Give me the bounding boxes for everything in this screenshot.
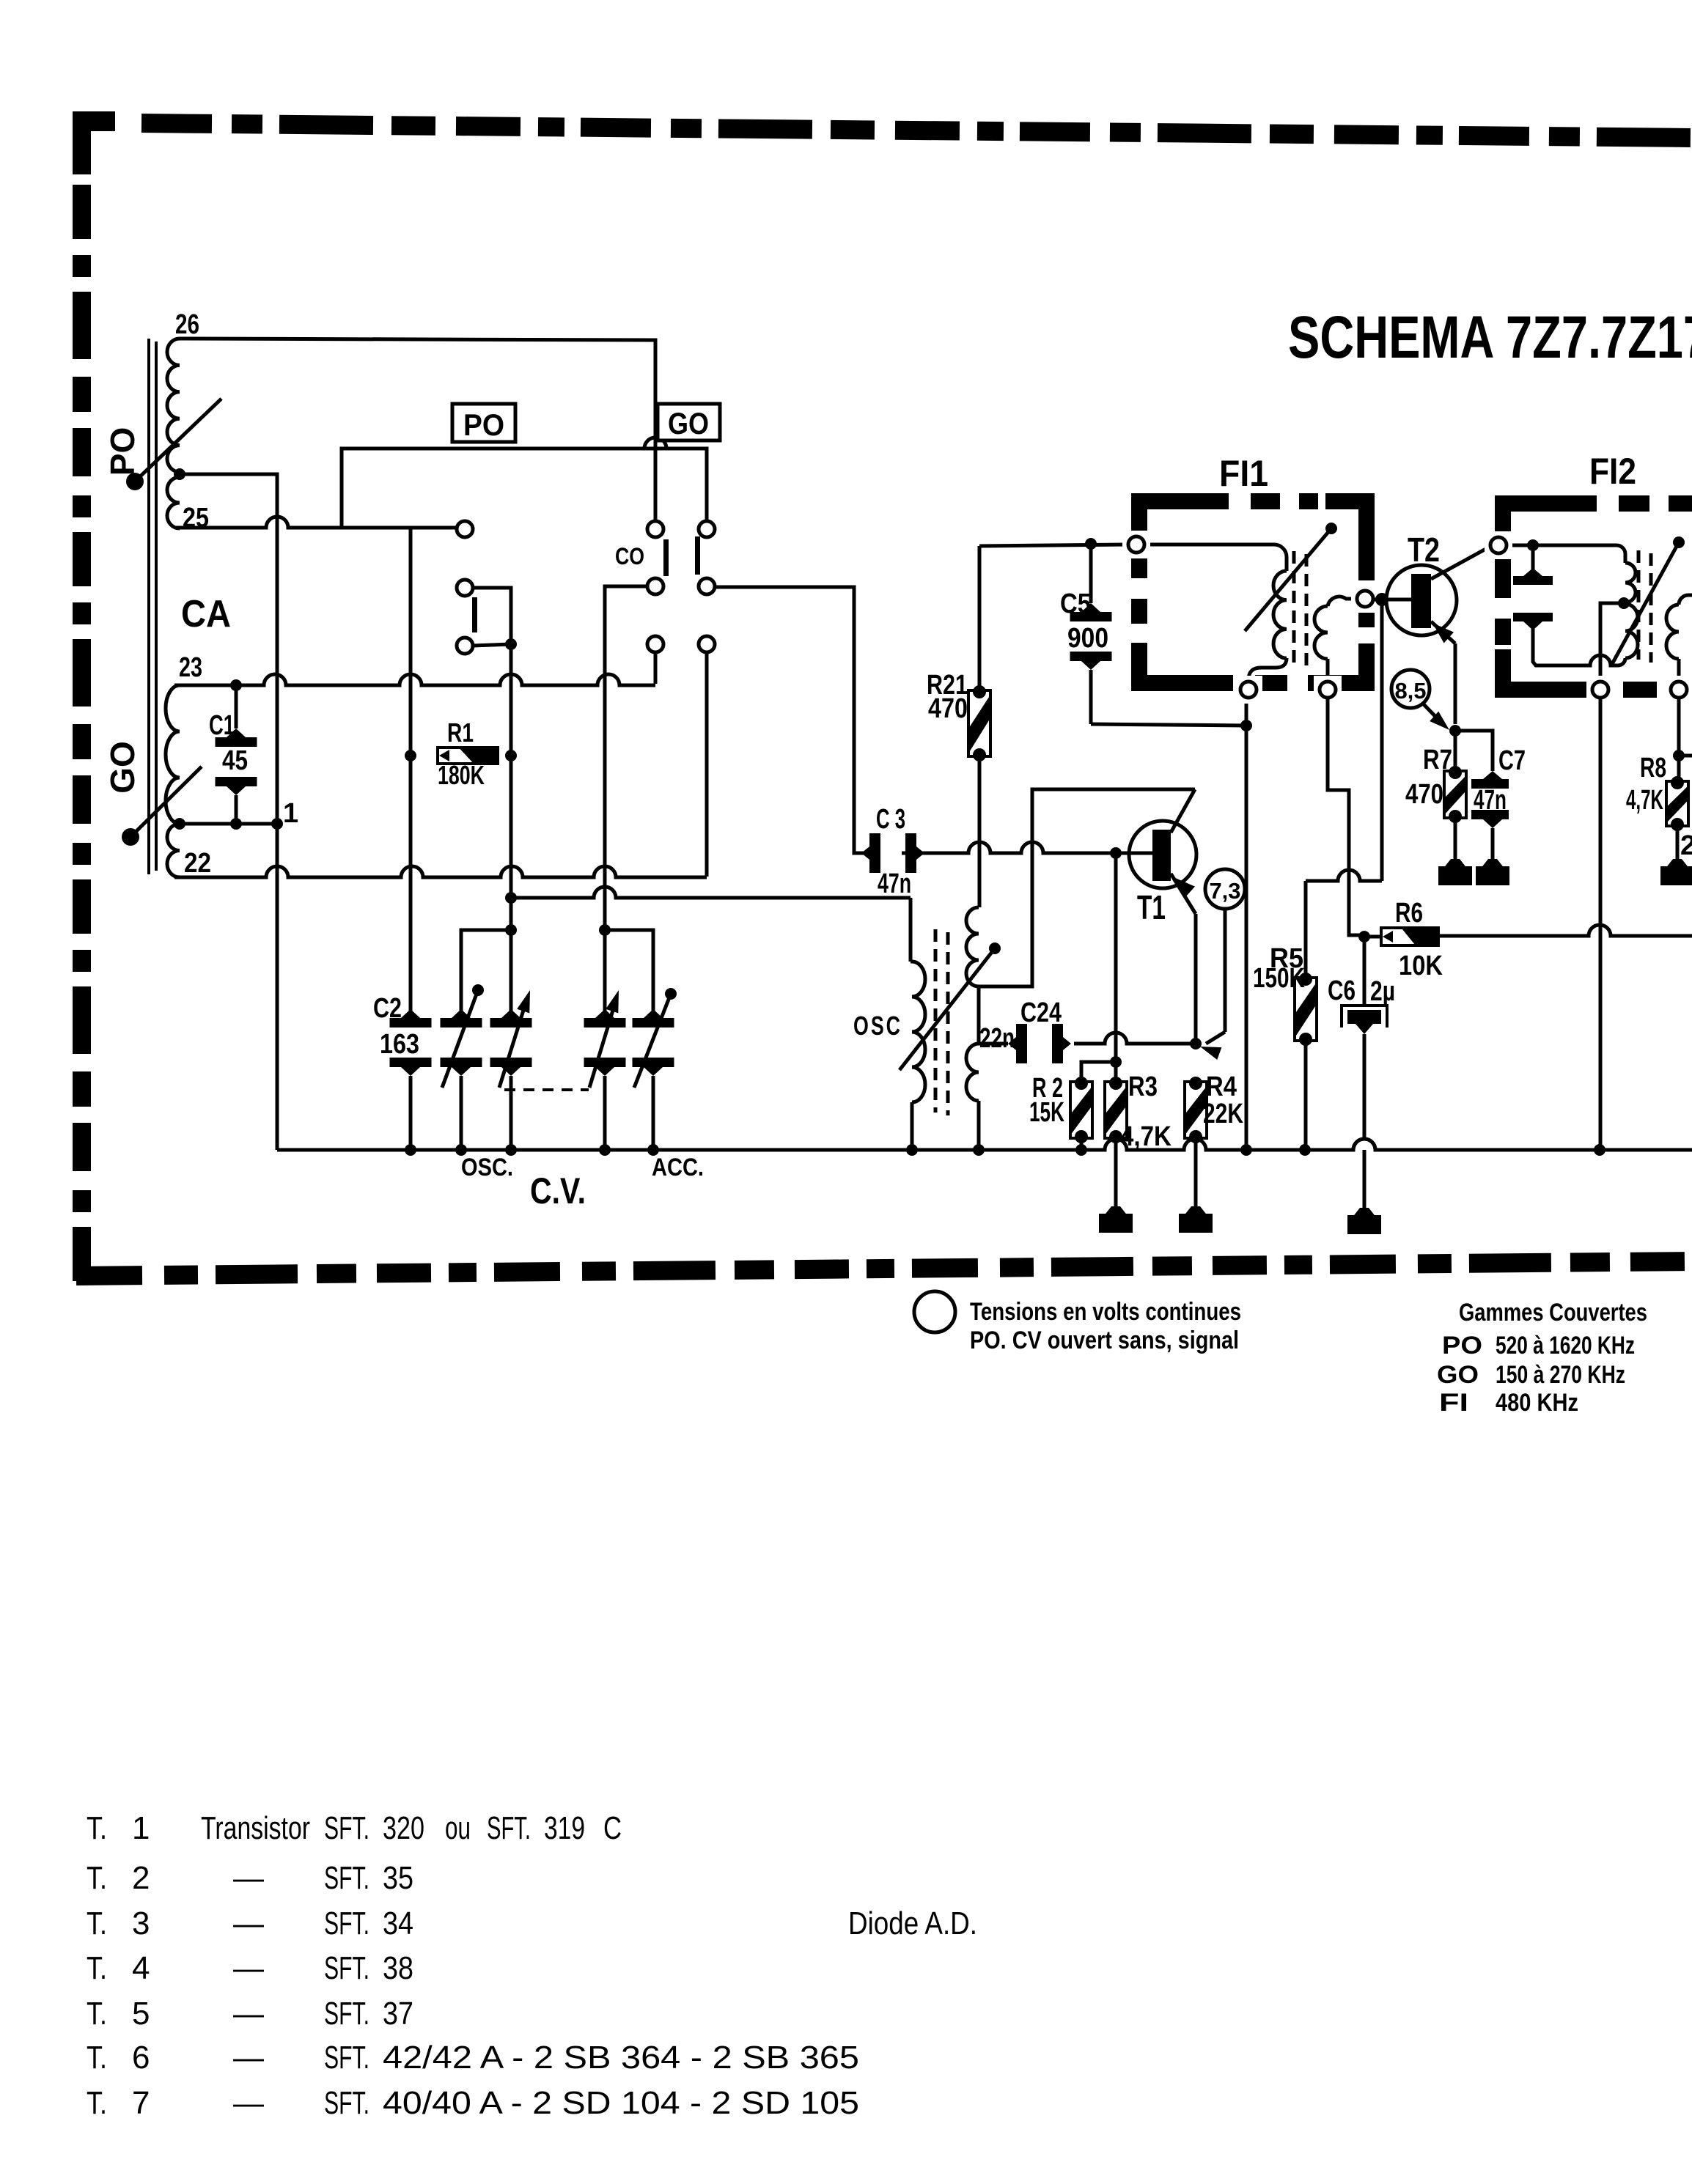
wire: emitter node to R7 and C7 — [1455, 731, 1493, 771]
svg-text:R4: R4 — [1206, 1071, 1237, 1102]
IF transformer FI1: primary winding — [1136, 545, 1287, 682]
band label box PO — [452, 404, 515, 442]
wire: CV bottom bus — [277, 1139, 1692, 1150]
svg-text:FI1: FI1 — [1219, 453, 1268, 494]
svg-text:T.: T. — [87, 1860, 107, 1896]
svg-text:R1: R1 — [447, 717, 474, 748]
svg-text:PO. CV ouvert sans, signal: PO. CV ouvert sans, signal — [970, 1327, 1239, 1354]
wire: R6 output to right edge — [1438, 925, 1692, 936]
wire: T1 collector — [1171, 789, 1195, 833]
wire: CV cap row link (x697/x825 to outer caps) — [461, 930, 653, 1018]
svg-text:GO: GO — [1437, 1361, 1479, 1389]
wire: FI2 tap down to CV bus — [1599, 698, 1603, 1150]
svg-text:FI2: FI2 — [1589, 451, 1636, 492]
svg-text:SFT.: SFT. — [487, 1810, 531, 1846]
wire: FI1 bottom-left to CV bus — [1245, 698, 1248, 1150]
svg-text:C6: C6 — [1328, 975, 1356, 1006]
svg-text:35: 35 — [383, 1860, 413, 1896]
node: C1 bottom — [230, 818, 242, 830]
node: FI2 primary tap — [1618, 597, 1630, 609]
node: coil 26-25 tap — [174, 468, 185, 480]
svg-text:47n: 47n — [1474, 785, 1507, 816]
svg-text:—: — — [233, 1950, 264, 1986]
transformer OSC: primary winding — [911, 962, 925, 1150]
node: R6/C6 junction — [1358, 931, 1370, 942]
svg-text:T.: T. — [87, 1810, 107, 1846]
node: R8 top — [1673, 750, 1685, 761]
FI2 terminal: primary tap out — [1586, 676, 1614, 704]
switch PO: lever bar — [472, 597, 477, 632]
svg-text:FI: FI — [1439, 1389, 1468, 1417]
wire: osc secondary tap to T1 collector line — [979, 789, 1195, 986]
svg-text:ACC.: ACC. — [652, 1154, 704, 1181]
svg-text:480 KHz: 480 KHz — [1496, 1389, 1578, 1417]
variable capacitor CV osc trimmer (arrow) — [490, 990, 532, 1150]
svg-text:42/42 A - 2 SB 364 - 2 SB 365: 42/42 A - 2 SB 364 - 2 SB 365 — [383, 2040, 859, 2076]
node: PO switch bottom junction — [505, 638, 517, 650]
resistor R3 4,7K — [1105, 1077, 1127, 1209]
FI1 terminal: secondary bottom — [1314, 676, 1342, 704]
svg-text:2: 2 — [132, 1860, 150, 1896]
svg-text:7,3: 7,3 — [1209, 878, 1240, 904]
svg-text:T.: T. — [87, 1996, 107, 2032]
svg-text:319: 319 — [544, 1810, 585, 1846]
svg-text:T.: T. — [87, 1950, 107, 1986]
IF transformer FI1 shield box — [1139, 501, 1367, 683]
node: C5 to FI1 return — [1240, 720, 1252, 731]
svg-text:45: 45 — [222, 745, 248, 776]
wire: R2 elbow — [1081, 1062, 1116, 1082]
svg-text:R3: R3 — [1128, 1071, 1158, 1102]
FI2 terminal: input (left edge) — [1485, 531, 1512, 559]
wire: FI2 primary bottom to cap (hop) — [1533, 629, 1625, 665]
transistor T1 — [1129, 821, 1196, 1044]
node: R2 tap — [1110, 1056, 1122, 1068]
node: T1 base junction — [1110, 847, 1122, 859]
capacitor inside FI2 — [1513, 545, 1553, 630]
svg-text:C2: C2 — [373, 993, 402, 1024]
wire: coil 25 row to PO switch — [174, 517, 456, 528]
legend: tensions text — [970, 1298, 1241, 1354]
svg-text:T.: T. — [87, 1906, 107, 1941]
wire: 23 row (coil to GO switch) — [174, 674, 655, 685]
IF transformer FI2: primary winding — [1616, 545, 1638, 658]
svg-text:10K: 10K — [1399, 951, 1443, 981]
capacitor C7 47n — [1471, 771, 1509, 862]
IF transformer FI2: core — [1638, 550, 1651, 663]
ground for R3 — [1103, 1206, 1128, 1217]
node: C1 top on 23 row — [230, 679, 242, 691]
svg-text:26: 26 — [175, 309, 199, 340]
node: CV bus junctions — [405, 1144, 1605, 1156]
ground for R7 — [1443, 859, 1468, 869]
wire: FI1 secondary out to T2 base — [1373, 598, 1404, 602]
wire: PO switch middle+bottom contacts join (x=697 column) — [473, 588, 511, 1017]
wire: AGC column x1884 — [1380, 600, 1384, 881]
svg-text:C24: C24 — [1020, 997, 1062, 1028]
gang coupling dashed link — [504, 1088, 589, 1091]
svg-text:1: 1 — [132, 1810, 150, 1846]
svg-text:PO: PO — [1442, 1332, 1482, 1360]
svg-text:C1: C1 — [209, 710, 235, 741]
svg-text:SFT.: SFT. — [324, 1950, 369, 1986]
transistor list — [87, 1810, 859, 2121]
svg-text:22n: 22n — [979, 1023, 1015, 1054]
svg-text:GO: GO — [668, 406, 709, 440]
resistor R5 150K — [1295, 973, 1317, 1150]
wire: FI2 secondary to R8 — [1677, 698, 1681, 781]
switch PO: contact circles — [457, 521, 473, 654]
svg-text:C5: C5 — [1060, 589, 1091, 619]
svg-text:Transistor: Transistor — [201, 1810, 310, 1846]
node: T2 emitter node — [1449, 725, 1461, 737]
svg-text:PO: PO — [103, 427, 141, 476]
svg-text:R8: R8 — [1640, 753, 1666, 783]
svg-text:4: 4 — [132, 1950, 150, 1986]
svg-text:180K: 180K — [438, 760, 485, 790]
svg-text:22: 22 — [184, 848, 211, 879]
wire: PO switch top contact to R1/C2 column — [411, 528, 457, 1018]
node: C5 top — [1085, 538, 1097, 550]
ground for R4 — [1183, 1206, 1208, 1217]
wire: C3 to T1 base — [902, 842, 1130, 853]
svg-text:37: 37 — [383, 1996, 413, 2032]
svg-text:SFT.: SFT. — [324, 1906, 369, 1941]
wire: tap 1 row (coil tap / C1 bottom / CV bus) — [180, 822, 277, 826]
svg-text:PO: PO — [463, 407, 504, 442]
ferrite antenna rod — [149, 339, 156, 874]
svg-text:Gammes Couvertes: Gammes Couvertes — [1459, 1299, 1647, 1327]
node: OSC feed tap on x697 — [505, 892, 517, 904]
svg-text:T2: T2 — [1408, 531, 1440, 569]
svg-text:38: 38 — [383, 1950, 413, 1986]
voltage circle 8,5 — [1391, 670, 1449, 730]
svg-text:C7: C7 — [1498, 745, 1526, 776]
page frame: left dashed border — [73, 185, 91, 1288]
wire: FI1 secondary bottom down, to R5 row — [1328, 698, 1364, 935]
voltage circle 7,3 — [1200, 869, 1245, 1060]
svg-text:OSC.: OSC. — [461, 1154, 513, 1181]
wire: feed line down to GO switch right contact — [698, 449, 707, 521]
variable capacitor C2 163 (trimmer section) — [390, 1009, 432, 1150]
resistor R21 470 — [968, 546, 990, 907]
FI1 terminal: secondary top (right edge) — [1351, 585, 1379, 613]
wire: R21/C5 to FI1 primary — [979, 545, 1128, 546]
svg-text:T.: T. — [87, 2040, 107, 2076]
svg-text:22K: 22K — [1203, 1099, 1243, 1129]
IF transformer FI2: secondary winding — [1666, 595, 1692, 682]
ground for C6 — [1352, 1208, 1377, 1218]
resistor R4 22K — [1185, 1077, 1207, 1209]
IF transformer FI2 shield box — [1503, 503, 1692, 690]
switch GO/CO: contact circles — [647, 521, 715, 652]
svg-text:320: 320 — [383, 1810, 424, 1846]
legend: gammes couvertes — [1437, 1299, 1647, 1417]
svg-text:4,7K: 4,7K — [1626, 785, 1663, 816]
capacitor C5 900 — [1070, 544, 1247, 726]
transformer OSC: tuning arrow — [900, 942, 1001, 1070]
node: cap row taps — [505, 924, 611, 936]
svg-text:6: 6 — [132, 2040, 150, 2076]
node: coil GO tap — [174, 818, 185, 830]
resistor R8 4,7K — [1666, 776, 1688, 862]
IF transformer FI1: core — [1294, 551, 1306, 670]
svg-text:150 à 270 KHz: 150 à 270 KHz — [1496, 1361, 1625, 1389]
svg-text:CA: CA — [181, 593, 231, 635]
wire: T1 base column down to R2/R3 — [1114, 853, 1118, 1082]
capacitor C24 22n — [979, 1024, 1071, 1063]
capacitor C1 45pF — [216, 685, 257, 824]
svg-text:SCHEMA 7Z7.7Z17: SCHEMA 7Z7.7Z17 — [1288, 304, 1692, 371]
svg-text:7: 7 — [132, 2085, 150, 2121]
page frame: top dashed border — [73, 111, 1692, 174]
transformer OSC: core (dashed) — [935, 929, 948, 1115]
svg-text:C: C — [603, 1810, 622, 1846]
antenna coil CA: PO winding (pins 26-25) — [167, 339, 180, 528]
svg-text:470: 470 — [1405, 779, 1443, 810]
wire: FI2 tap to bottom terminal — [1600, 603, 1624, 682]
svg-text:163: 163 — [380, 1029, 419, 1060]
wire: tap 25 to CV oscillator bus (vertical x=378) — [180, 474, 277, 1150]
svg-text:Diode A.D.: Diode A.D. — [848, 1906, 977, 1941]
svg-text:1: 1 — [283, 798, 298, 829]
wire: GO bottom-right contact to 22 row — [705, 652, 709, 877]
capacitor C3 47n — [861, 833, 924, 873]
wire: C24 to emitter node — [1074, 1033, 1196, 1044]
wire: 22 row (coil to GO switch) — [174, 866, 707, 877]
band label box GO — [658, 404, 720, 440]
wire: GO middle-left contact to ACC cap (x=825 column) — [605, 586, 647, 1017]
variable capacitor CV acc trimmer (arrow) — [584, 990, 626, 1150]
svg-text:C 3: C 3 — [876, 804, 905, 835]
svg-text:SFT.: SFT. — [324, 2085, 369, 2121]
svg-text:150K: 150K — [1253, 963, 1305, 994]
resistor R1 180K — [405, 748, 517, 764]
wire: GO bottom-left contact to 23 row — [654, 652, 658, 684]
svg-text:SFT.: SFT. — [324, 1810, 369, 1846]
svg-text:—: — — [233, 1860, 264, 1896]
ground for C7 — [1480, 859, 1505, 869]
svg-text:40/40 A - 2 SD 104 - 2 SD 105: 40/40 A - 2 SD 104 - 2 SD 105 — [383, 2085, 859, 2121]
FI2 terminal: secondary bottom — [1665, 676, 1692, 704]
node: emitter/R4 junction — [1190, 1038, 1202, 1049]
svg-text:SFT.: SFT. — [324, 2040, 369, 2076]
svg-text:CO: CO — [615, 543, 644, 569]
transistor T2 — [1386, 546, 1491, 724]
svg-text:OSC: OSC — [853, 1011, 902, 1041]
svg-text:3: 3 — [132, 1906, 150, 1941]
svg-text:5: 5 — [132, 1996, 150, 2032]
FI1 terminal: primary return (bottom) — [1235, 676, 1262, 704]
resistor R6 10K — [1364, 928, 1438, 945]
variable capacitor CV acc section — [633, 988, 677, 1150]
resistor R7 470 — [1444, 731, 1466, 862]
svg-text:R7: R7 — [1423, 745, 1452, 775]
page frame: bottom dashed border — [76, 1261, 1692, 1276]
IF transformer FI1: secondary winding — [1314, 597, 1357, 682]
variable capacitor CV osc section — [441, 984, 485, 1150]
node: FI2 cap top — [1527, 539, 1539, 551]
svg-text:C.V.: C.V. — [530, 1170, 586, 1211]
node: T2 base / AGC junction — [1375, 593, 1388, 606]
switch GO: lever bars — [663, 536, 700, 576]
IF transformer FI2: tuning arrow — [1612, 536, 1685, 664]
hop of PO/GO feed line over top bus — [644, 438, 666, 449]
IF transformer FI1: tuning arrow — [1245, 523, 1337, 631]
svg-text:SFT.: SFT. — [324, 1860, 369, 1896]
wire: GO middle-right contact to C3 (x=1165 column) — [715, 587, 869, 853]
svg-text:4,7K: 4,7K — [1120, 1121, 1171, 1152]
svg-text:—: — — [233, 2085, 264, 2121]
svg-text:GO: GO — [103, 741, 141, 794]
svg-text:15K: 15K — [1029, 1097, 1064, 1128]
svg-text:—: — — [233, 1996, 264, 2032]
legend: voltage note circle — [914, 1291, 955, 1332]
svg-text:520 à 1620 KHz: 520 à 1620 KHz — [1496, 1332, 1635, 1360]
svg-text:470: 470 — [928, 693, 968, 724]
transformer OSC: secondary winding with taps — [966, 907, 979, 1150]
svg-text:SFT.: SFT. — [324, 1996, 369, 2032]
svg-text:47n: 47n — [878, 868, 911, 899]
svg-text:34: 34 — [383, 1906, 413, 1941]
svg-text:8,5: 8,5 — [1394, 678, 1426, 704]
svg-text:T.: T. — [87, 2085, 107, 2121]
wire: 25 row up to PO/GO feed line — [342, 449, 698, 528]
wire: OSC feed row (x697 to OSC primary) — [511, 887, 911, 962]
svg-text:2µ: 2µ — [1370, 976, 1395, 1007]
capacitor C6 2u (electrolytic) — [1342, 937, 1387, 1211]
wire: coil pin 26 to GO switch (top bus) — [180, 339, 655, 521]
svg-text:—: — — [233, 2040, 264, 2076]
svg-text:Tensions en volts continues: Tensions en volts continues — [970, 1298, 1241, 1326]
wire: AGC row to R5 — [1306, 870, 1382, 978]
svg-text:T1: T1 — [1137, 888, 1166, 926]
antenna coil CA: GO winding (pins 23-22) — [166, 685, 180, 877]
ground for R8 — [1665, 859, 1690, 869]
node: terminal 1 — [271, 818, 283, 830]
wire: T2 collector into FI2 — [1507, 544, 1616, 547]
svg-text:900: 900 — [1067, 623, 1108, 654]
svg-text:ou: ou — [445, 1810, 471, 1846]
svg-text:R6: R6 — [1395, 898, 1423, 929]
FI1 terminal: input (left edge) — [1122, 531, 1150, 558]
resistor R2 15K — [1070, 1077, 1092, 1150]
svg-text:2: 2 — [1680, 830, 1692, 861]
GO section wiper arrow — [122, 767, 202, 846]
svg-text:—: — — [233, 1906, 264, 1941]
wire: R8 node to right edge — [1679, 754, 1692, 758]
svg-text:23: 23 — [179, 652, 202, 683]
PO section wiper arrow — [126, 399, 221, 490]
